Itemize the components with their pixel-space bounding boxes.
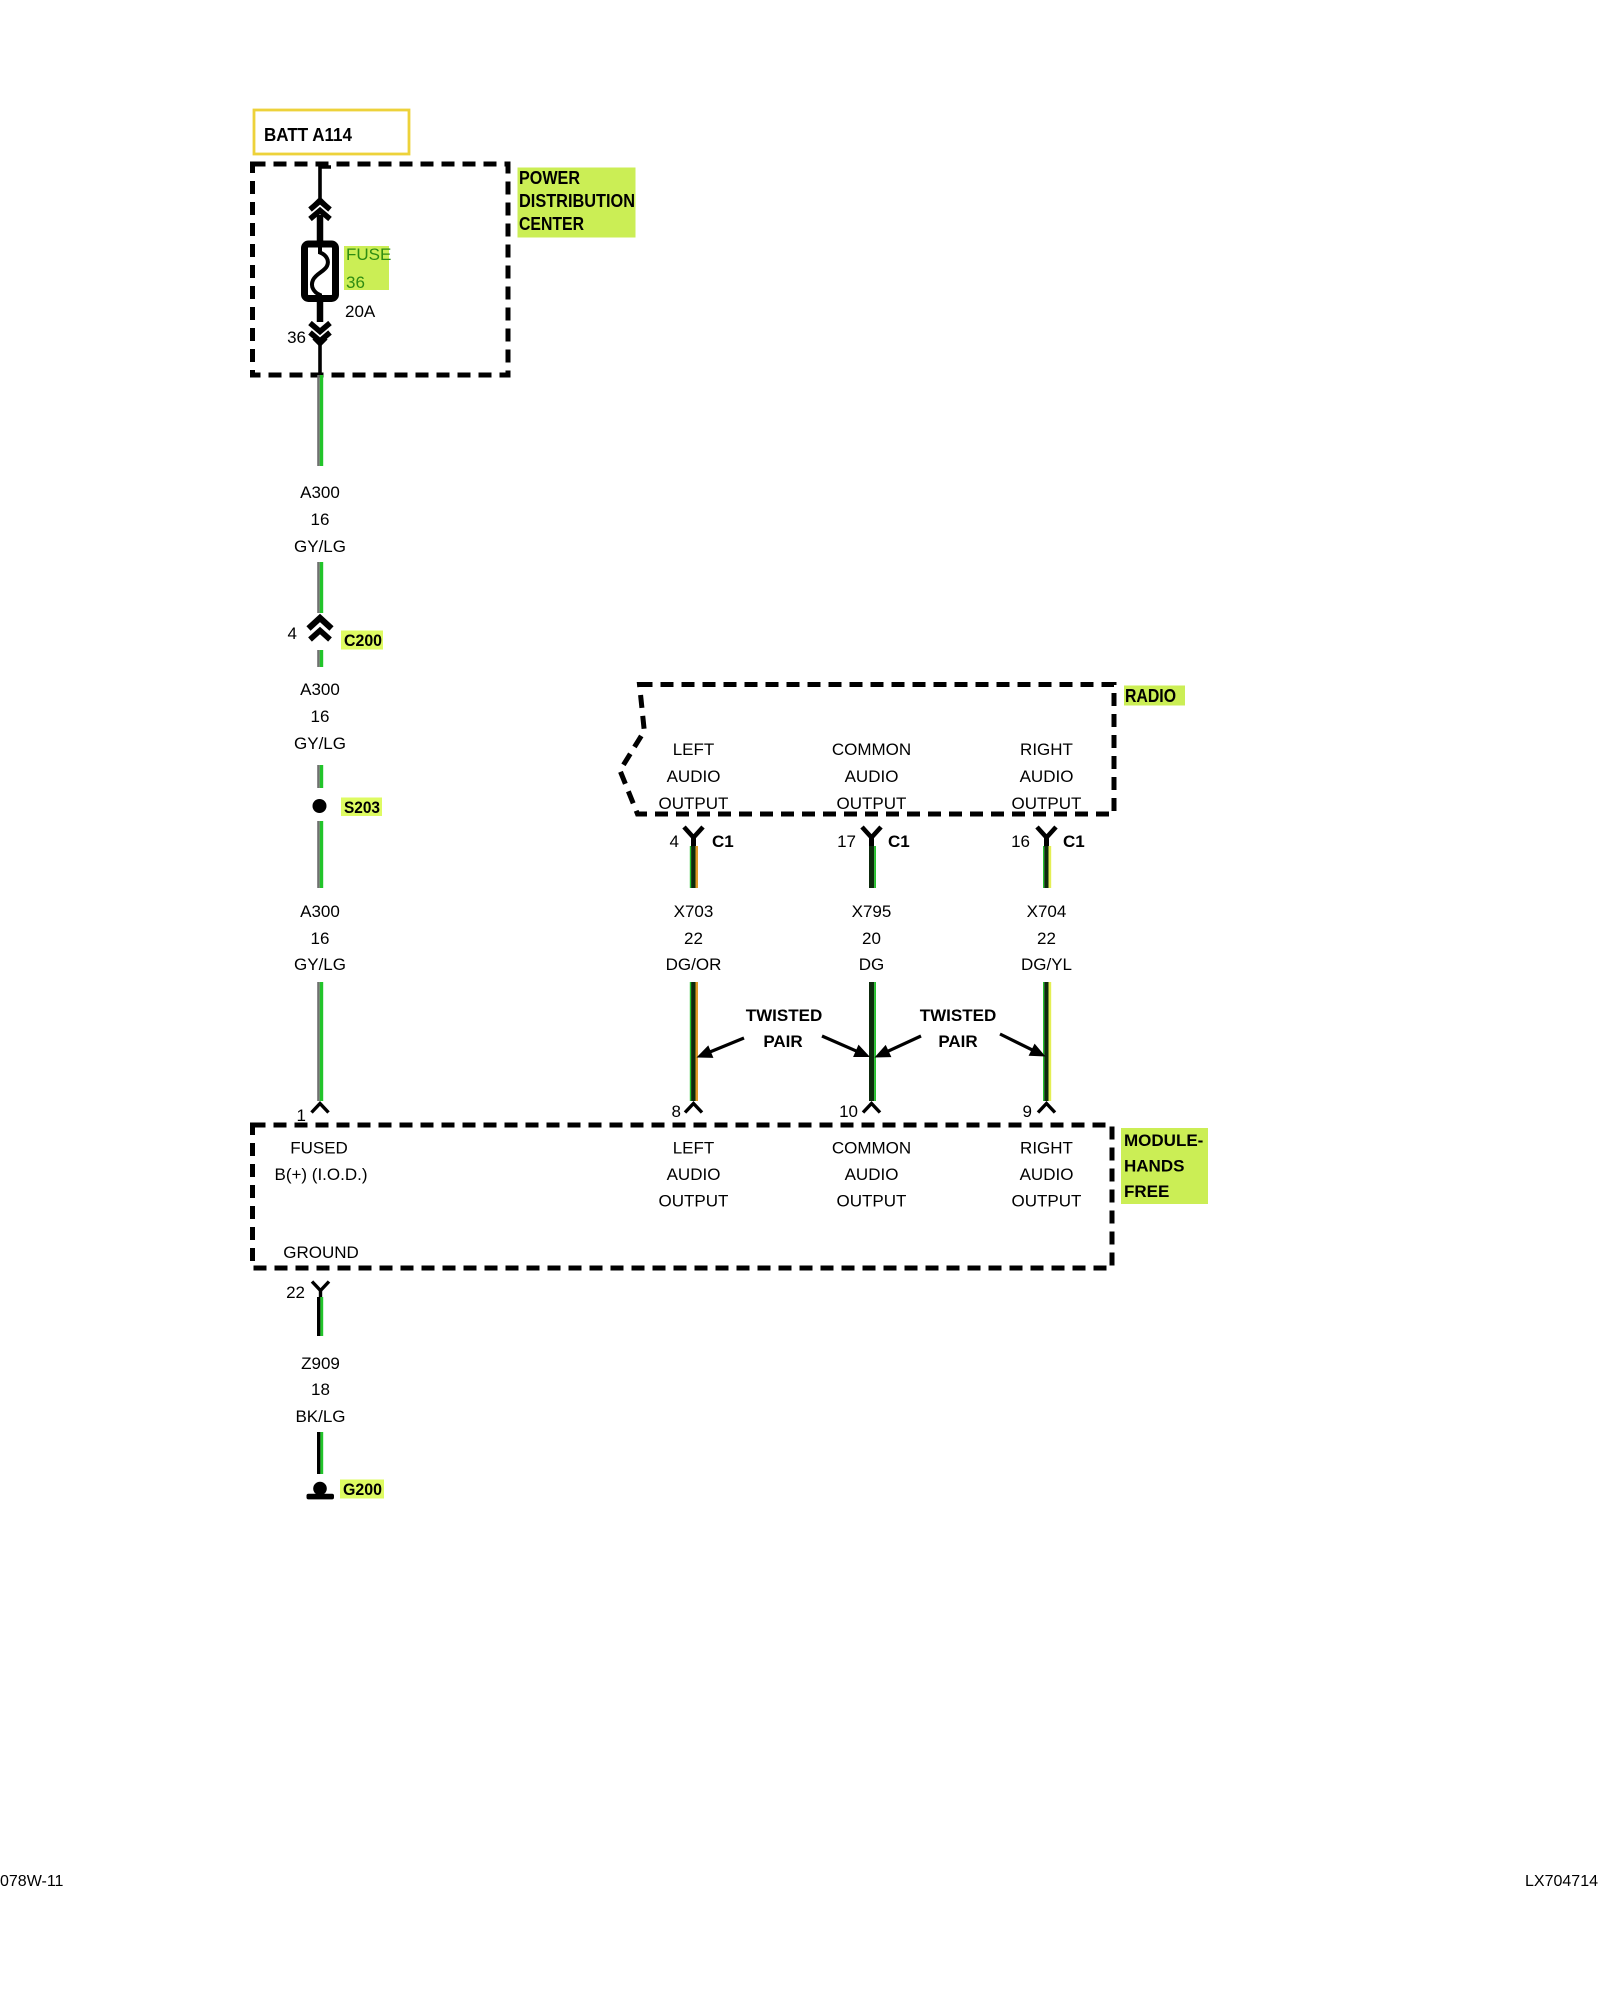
svg-text:G200: G200 xyxy=(343,1480,382,1499)
svg-text:AUDIO: AUDIO xyxy=(1020,767,1074,786)
svg-text:B(+) (I.O.D.): B(+) (I.O.D.) xyxy=(274,1165,367,1184)
svg-text:MODULE-: MODULE- xyxy=(1124,1131,1203,1150)
wire label X795 20 DG xyxy=(852,902,892,974)
svg-text:4: 4 xyxy=(670,832,679,851)
twisted pair arrow to common wire (from right label) xyxy=(875,1036,922,1058)
wire from BATT A114 into PDC xyxy=(320,167,331,198)
wire label A300 16 GY/LG xyxy=(294,483,346,556)
svg-text:PAIR: PAIR xyxy=(938,1032,977,1051)
module connector pin 10 xyxy=(863,1104,880,1113)
svg-text:X703: X703 xyxy=(674,902,714,921)
svg-text:18: 18 xyxy=(311,1380,330,1399)
svg-text:LX704714: LX704714 xyxy=(1525,1873,1598,1890)
svg-text:RIGHT: RIGHT xyxy=(1020,740,1073,759)
svg-text:AUDIO: AUDIO xyxy=(667,1165,721,1184)
svg-text:AUDIO: AUDIO xyxy=(1020,1165,1074,1184)
wire Z909 18 BK/LG segment 1 xyxy=(317,1297,323,1336)
svg-text:FREE: FREE xyxy=(1124,1182,1169,1201)
svg-text:078W-11: 078W-11 xyxy=(0,1873,64,1890)
svg-text:9: 9 xyxy=(1023,1102,1032,1121)
ground name G200 (highlighted) xyxy=(340,1480,384,1500)
svg-text:17: 17 xyxy=(837,832,856,851)
module pin function labels xyxy=(274,1139,1081,1263)
svg-text:AUDIO: AUDIO xyxy=(845,1165,899,1184)
svg-text:CENTER: CENTER xyxy=(519,214,584,234)
svg-text:AUDIO: AUDIO xyxy=(667,767,721,786)
svg-text:36: 36 xyxy=(346,273,365,292)
svg-text:Z909: Z909 xyxy=(301,1354,340,1373)
svg-text:LEFT: LEFT xyxy=(673,1139,715,1158)
svg-text:BK/LG: BK/LG xyxy=(295,1407,345,1426)
twisted pair arrow to common wire (from left label) xyxy=(822,1036,870,1057)
wire X704 22 DG/YL segment 1 xyxy=(1043,846,1051,888)
svg-text:C1: C1 xyxy=(1063,832,1085,851)
svg-text:16: 16 xyxy=(311,707,330,726)
svg-text:OUTPUT: OUTPUT xyxy=(1012,794,1082,813)
wire A300 16 GY/LG segment 1 xyxy=(317,375,323,466)
svg-text:X704: X704 xyxy=(1027,902,1067,921)
svg-text:HANDS: HANDS xyxy=(1124,1157,1184,1176)
svg-text:OUTPUT: OUTPUT xyxy=(837,794,907,813)
inline connector (double chevron) below fuse, pin 36 xyxy=(310,302,330,375)
wire Z909 segment 2 xyxy=(317,1432,323,1474)
svg-text:DG/OR: DG/OR xyxy=(666,955,722,974)
svg-text:DG: DG xyxy=(859,955,885,974)
wire A300 segment 2 xyxy=(317,562,323,613)
svg-text:4: 4 xyxy=(288,624,297,643)
svg-text:POWER: POWER xyxy=(519,168,580,188)
svg-text:A300: A300 xyxy=(300,680,340,699)
svg-text:FUSED: FUSED xyxy=(290,1139,348,1158)
connector C200 (double chevron) pin 4 xyxy=(309,618,332,640)
label RADIO xyxy=(1124,686,1185,707)
radio pin function labels xyxy=(659,740,1082,813)
svg-text:OUTPUT: OUTPUT xyxy=(1012,1192,1082,1211)
svg-text:DG/YL: DG/YL xyxy=(1021,955,1072,974)
svg-text:C1: C1 xyxy=(888,832,910,851)
inline connector (double chevron) above fuse xyxy=(310,199,330,243)
svg-text:BATT A114: BATT A114 xyxy=(264,125,352,145)
svg-text:36: 36 xyxy=(287,328,306,347)
svg-text:C1: C1 xyxy=(712,832,734,851)
svg-text:FUSE: FUSE xyxy=(346,245,391,264)
module connector pin 22 (ground) xyxy=(312,1282,329,1298)
wire A300 segment 5 xyxy=(317,821,323,888)
svg-text:RIGHT: RIGHT xyxy=(1020,1139,1073,1158)
wire label A300 16 GY/LG xyxy=(294,902,346,974)
svg-text:GY/LG: GY/LG xyxy=(294,955,346,974)
svg-text:DISTRIBUTION: DISTRIBUTION xyxy=(519,191,635,211)
svg-text:16: 16 xyxy=(311,929,330,948)
connector name C200 (highlighted) xyxy=(341,631,383,651)
svg-text:S203: S203 xyxy=(344,798,380,817)
wire A300 segment 4 xyxy=(317,765,323,788)
wire A300 segment 3 xyxy=(317,650,323,667)
ground G200 xyxy=(307,1482,335,1500)
label MODULE-HANDS FREE xyxy=(1121,1128,1208,1204)
label TWISTED PAIR (left) xyxy=(746,1006,823,1051)
radio box xyxy=(620,685,1114,815)
svg-text:22: 22 xyxy=(286,1283,305,1302)
splice name S203 (highlighted) xyxy=(341,798,382,818)
radio connector C1 pin 16 xyxy=(1037,827,1056,847)
wire label A300 16 GY/LG xyxy=(294,680,346,753)
wire label Z909 18 BK/LG xyxy=(295,1354,345,1426)
svg-text:OUTPUT: OUTPUT xyxy=(659,1192,729,1211)
svg-text:22: 22 xyxy=(1037,929,1056,948)
wire X795 segment 2 xyxy=(869,982,876,1101)
label POWER DISTRIBUTION CENTER xyxy=(518,168,636,238)
fuse F36 20A xyxy=(305,244,336,300)
svg-text:GY/LG: GY/LG xyxy=(294,537,346,556)
svg-text:C200: C200 xyxy=(344,631,382,650)
svg-text:AUDIO: AUDIO xyxy=(845,767,899,786)
wire X703 22 DG/OR segment 1 xyxy=(690,846,698,888)
svg-text:TWISTED: TWISTED xyxy=(920,1006,997,1025)
svg-text:OUTPUT: OUTPUT xyxy=(837,1192,907,1211)
svg-text:A300: A300 xyxy=(300,483,340,502)
svg-text:PAIR: PAIR xyxy=(763,1032,802,1051)
svg-text:RADIO: RADIO xyxy=(1125,686,1176,706)
svg-text:20A: 20A xyxy=(345,302,376,321)
svg-text:COMMON: COMMON xyxy=(832,1139,911,1158)
radio connector C1 pin 17 xyxy=(862,827,881,847)
twisted pair arrow to right wire xyxy=(1000,1034,1046,1057)
svg-text:X795: X795 xyxy=(852,902,892,921)
svg-text:GROUND: GROUND xyxy=(283,1243,359,1262)
svg-text:TWISTED: TWISTED xyxy=(746,1006,823,1025)
label TWISTED PAIR (right) xyxy=(920,1006,997,1051)
svg-text:1: 1 xyxy=(297,1106,306,1125)
battery feed box BATT A114 xyxy=(254,110,409,154)
module connector pin 8 xyxy=(685,1104,702,1113)
wire X795 20 DG segment 1 xyxy=(869,846,876,888)
twisted pair arrow to left wire xyxy=(697,1038,745,1058)
wire A300 segment 6 xyxy=(317,982,323,1101)
module connector pin 9 xyxy=(1038,1104,1055,1113)
svg-text:LEFT: LEFT xyxy=(673,740,715,759)
wire X703 segment 2 xyxy=(690,982,698,1101)
power distribution center box xyxy=(253,164,509,375)
radio connector C1 pin 4 xyxy=(684,827,703,847)
svg-text:16: 16 xyxy=(1011,832,1030,851)
wire X704 segment 2 xyxy=(1043,982,1051,1101)
svg-text:8: 8 xyxy=(672,1102,681,1121)
wire label X704 22 DG/YL xyxy=(1021,902,1072,974)
svg-text:OUTPUT: OUTPUT xyxy=(659,794,729,813)
svg-text:GY/LG: GY/LG xyxy=(294,734,346,753)
svg-text:10: 10 xyxy=(839,1102,858,1121)
svg-text:A300: A300 xyxy=(300,902,340,921)
wire label X703 22 DG/OR xyxy=(666,902,722,974)
module-hands free box xyxy=(253,1125,1113,1268)
module connector pin 1 xyxy=(312,1104,329,1113)
fuse label FUSE 36 (highlighted) xyxy=(344,245,391,292)
svg-text:22: 22 xyxy=(684,929,703,948)
splice S203 xyxy=(313,799,327,813)
svg-text:20: 20 xyxy=(862,929,881,948)
svg-text:16: 16 xyxy=(311,510,330,529)
svg-text:COMMON: COMMON xyxy=(832,740,911,759)
